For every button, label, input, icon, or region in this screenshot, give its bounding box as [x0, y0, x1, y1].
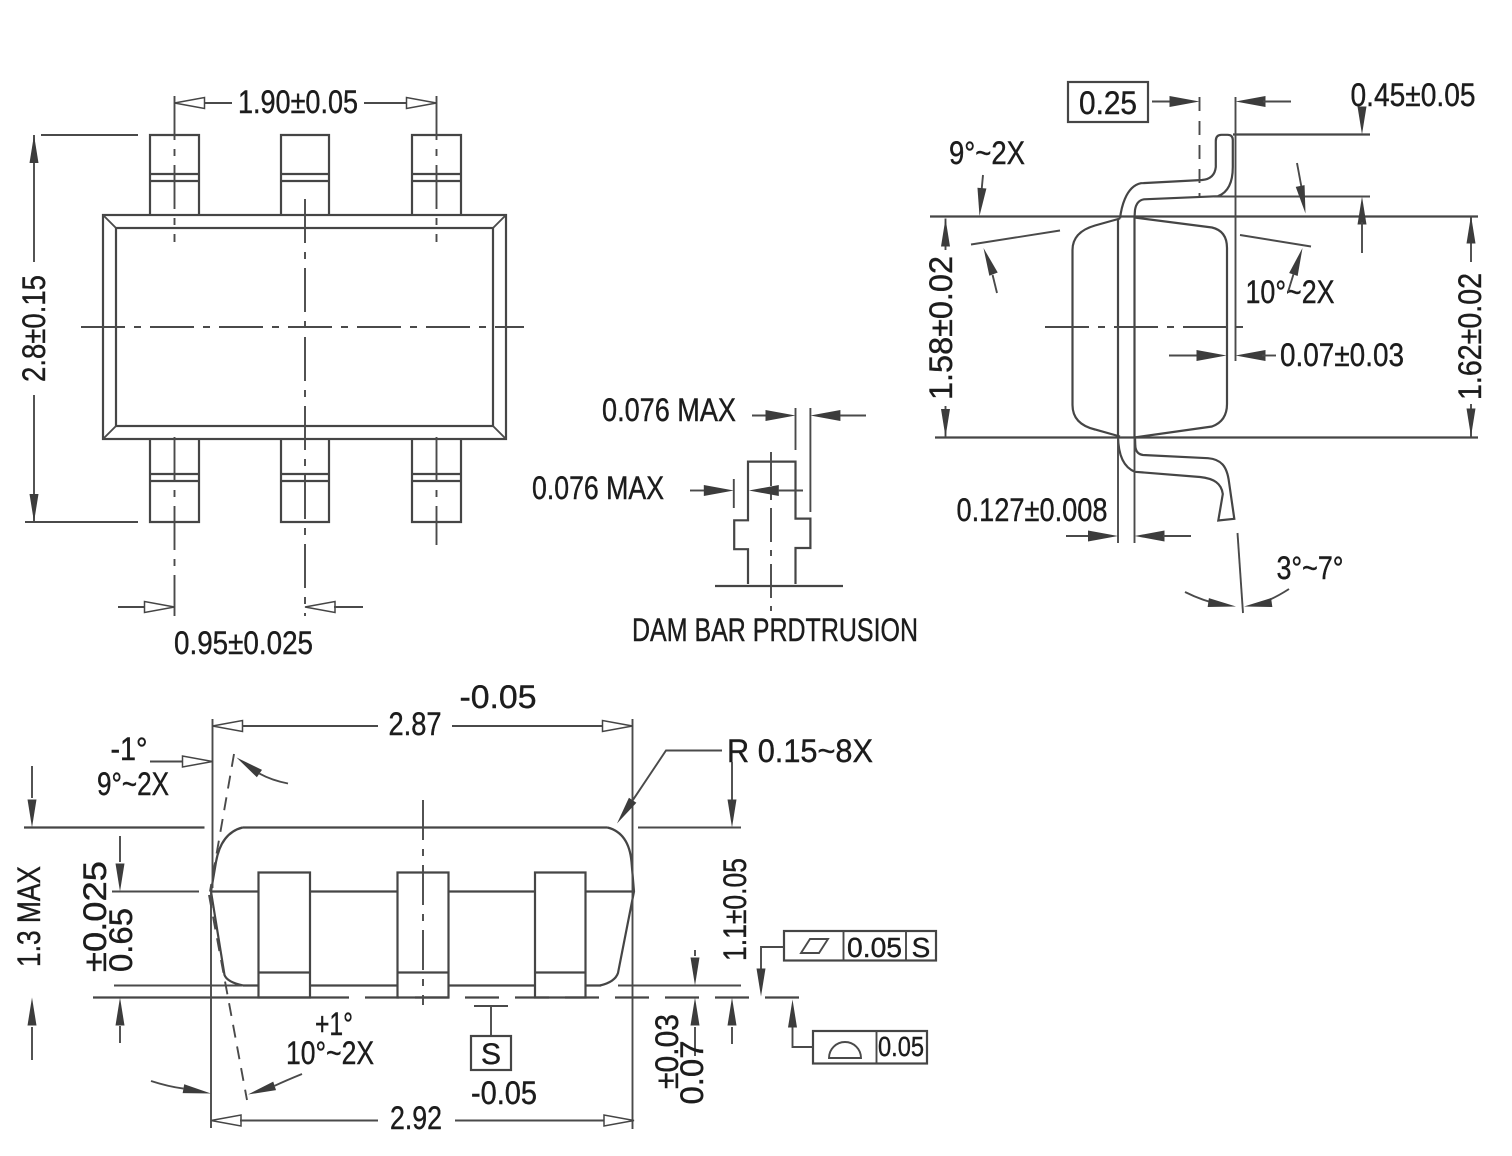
body top edge extension line left — [971, 231, 1060, 245]
body bottom extension line left — [114, 985, 242, 987]
draft dashed line top left — [210, 754, 234, 892]
corner chamfer TR — [493, 215, 506, 228]
top lead foot extension line — [1214, 196, 1370, 198]
dimension 1.90±0.05 — [175, 84, 437, 120]
boxed dimension 0.25 — [1068, 82, 1291, 122]
pin 5 bottom outline — [281, 439, 329, 522]
svg-text:0.05: 0.05 — [847, 932, 902, 963]
angle arrow 9° to seating line — [975, 175, 986, 216]
svg-text:R 0.15~8X: R 0.15~8X — [727, 733, 873, 769]
svg-text:1.58±0.02: 1.58±0.02 — [923, 256, 959, 400]
lead tip angle arc left — [1185, 592, 1237, 611]
svg-text:2.87: 2.87 — [389, 706, 442, 742]
svg-text:0.07: 0.07 — [674, 1041, 710, 1105]
centerline pin1 top — [174, 96, 176, 242]
angle dim line to left extension — [150, 756, 213, 767]
extension line left protrusion — [733, 479, 735, 508]
centerline front pin 2 — [422, 800, 424, 1005]
centerline pin6 bottom — [436, 437, 438, 545]
dimension 2.92 — [211, 1100, 634, 1136]
pin 1 top bend lines — [150, 174, 199, 181]
svg-text:0.65: 0.65 — [103, 908, 139, 972]
left extension line for 2.87 and 2.92 — [212, 719, 214, 888]
pin 2 top bend lines — [281, 174, 329, 181]
angle arrow to dashed line bottom — [247, 1074, 302, 1099]
bottom lead gull-wing outline — [1118, 437, 1234, 521]
svg-text:9°~2X: 9°~2X — [949, 135, 1025, 171]
svg-text:-0.05: -0.05 — [460, 679, 537, 715]
pin 6 bottom bend lines — [412, 474, 461, 481]
body bottom edge segments — [243, 984, 601, 986]
draft dashed line bottom left — [209, 895, 247, 1100]
dimension 1.3 MAX — [11, 766, 47, 1060]
gauge plane dashed line — [1199, 97, 1201, 196]
angle arrow 10° to seating line — [1296, 163, 1310, 214]
svg-text:S: S — [912, 932, 931, 963]
svg-text:0.07±0.03: 0.07±0.03 — [1280, 337, 1404, 373]
pin 2 top outline — [281, 135, 329, 215]
right extension line for 2.87 and 2.92 — [632, 719, 634, 1129]
svg-text:0.95±0.025: 0.95±0.025 — [174, 625, 313, 661]
dimension 1.58±0.02 — [923, 219, 959, 438]
seating plane dashed part — [315, 996, 806, 998]
front pin 1 — [259, 873, 311, 998]
pin 5 bottom bend lines — [281, 474, 329, 481]
svg-text:2.8±0.15: 2.8±0.15 — [16, 275, 52, 382]
svg-text:1.3 MAX: 1.3 MAX — [11, 866, 47, 967]
body bottom extension line right — [618, 985, 741, 987]
top reference line right extension — [638, 827, 741, 829]
dimension 0.127±0.008 — [957, 438, 1192, 543]
svg-text:10°~2X: 10°~2X — [1246, 274, 1335, 310]
centerline pin3 top — [436, 96, 438, 242]
centerline dam bar detail — [770, 452, 772, 611]
dimension 2.87 — [213, 679, 633, 742]
angle arrow 9° to edge extension — [979, 246, 997, 293]
pin 6 bottom outline — [412, 439, 461, 522]
angle arrow 10° to edge extension — [1288, 247, 1307, 292]
dimension 0.45±0.05 — [1351, 77, 1476, 253]
corner chamfer BL — [103, 426, 116, 439]
front pin 3 — [535, 873, 586, 998]
label R 0.15~8X with leader — [613, 733, 873, 826]
svg-text:2.92: 2.92 — [390, 1100, 442, 1136]
pin 1 top outline — [150, 135, 199, 215]
bottom reference line — [935, 436, 1478, 438]
centerline body vertical — [304, 199, 306, 616]
angle arc arrow to dashed line — [234, 754, 288, 784]
svg-text:0.076 MAX: 0.076 MAX — [602, 392, 736, 428]
svg-text:0.05: 0.05 — [878, 1031, 924, 1062]
svg-text:1.1±0.05: 1.1±0.05 — [717, 858, 753, 961]
dimension 0.65 ±0.025 — [77, 836, 139, 1043]
body front outline left — [211, 828, 243, 986]
pin 3 top bend lines — [412, 174, 461, 181]
datum S flag — [471, 1006, 511, 1071]
svg-text:S: S — [481, 1038, 501, 1071]
svg-text:1.90±0.05: 1.90±0.05 — [238, 84, 358, 120]
body section outline left — [1073, 219, 1121, 437]
extension line pin right edge — [795, 408, 797, 450]
extension line right protrusion — [809, 408, 811, 512]
parting line segments — [211, 890, 634, 892]
top reference line left — [24, 826, 205, 828]
seating plane solid part — [93, 996, 315, 998]
lead frame base line — [715, 585, 843, 587]
feature control frame 1 — [757, 931, 937, 997]
dimension 0.076 MAX top — [602, 392, 866, 428]
lead tip angle line — [1238, 533, 1244, 613]
svg-text:0.45±0.05: 0.45±0.05 — [1351, 77, 1476, 113]
dimension 1.62±0.02 — [1452, 216, 1488, 437]
dimension 0.95±0.025 — [118, 602, 363, 662]
svg-text:1.62±0.02: 1.62±0.02 — [1452, 273, 1488, 400]
top lead gull-wing outline — [1120, 135, 1233, 219]
dimension 0.076 MAX left — [532, 470, 803, 506]
body inner rectangle — [116, 228, 493, 426]
dimension 0.07 ±0.03 front — [649, 950, 710, 1105]
pin 3 top outline — [412, 135, 461, 215]
svg-text:3°~7°: 3°~7° — [1277, 550, 1344, 586]
svg-text:-1°: -1° — [111, 731, 148, 767]
dimension 1.1±0.05 — [717, 762, 753, 1044]
body front outline right — [600, 828, 634, 986]
lead with dam bar protrusion outline — [734, 462, 810, 584]
pin 4 bottom outline — [150, 439, 199, 522]
svg-text:-0.05: -0.05 — [471, 1075, 537, 1111]
centerline body horizontal — [81, 326, 524, 328]
svg-text:0.25: 0.25 — [1079, 85, 1137, 121]
pin 4 bottom bend lines — [150, 474, 199, 481]
top lead tip top extension line — [1233, 133, 1370, 135]
svg-text:10°~2X: 10°~2X — [286, 1035, 374, 1071]
lead tip edge extension line — [1235, 97, 1237, 361]
front pin 2 — [398, 873, 449, 998]
body outer rectangle — [103, 215, 506, 439]
centerline pin4 bottom — [174, 437, 176, 616]
lead section inside body left — [1117, 219, 1119, 437]
lead tip angle arc right — [1243, 589, 1289, 611]
dimension 0.07±0.03 — [1169, 337, 1404, 373]
top reference line — [930, 215, 1478, 217]
svg-text:9°~2X: 9°~2X — [97, 766, 169, 802]
svg-text:0.127±0.008: 0.127±0.008 — [957, 492, 1108, 528]
body section outline right — [1135, 218, 1228, 438]
parting line left extension — [112, 891, 199, 893]
body top edge — [243, 826, 608, 828]
centerline side view — [1045, 326, 1247, 328]
angle arrow to ext line bottom — [151, 1081, 212, 1098]
dimension 2.8±0.15 — [16, 135, 138, 522]
body top edge extension line right — [1240, 235, 1311, 247]
svg-text:DAM BAR PRDTRUSION: DAM BAR PRDTRUSION — [632, 612, 918, 648]
svg-text:0.076 MAX: 0.076 MAX — [532, 470, 664, 506]
lead section inside body right — [1133, 218, 1135, 438]
corner chamfer TL — [103, 215, 116, 228]
corner chamfer BR — [493, 426, 506, 439]
feature control frame 2 — [788, 1000, 927, 1064]
